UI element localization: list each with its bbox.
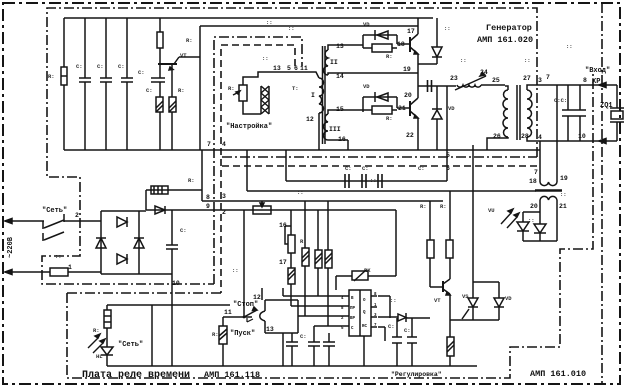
svg-text:11: 11: [224, 309, 232, 316]
svg-text:RC: RC: [362, 325, 368, 329]
svg-text:::: ::: [297, 189, 304, 196]
svg-text:R:: R:: [188, 177, 195, 184]
svg-text:"Настройка": "Настройка": [226, 122, 272, 131]
svg-text:ХР: ХР: [592, 78, 600, 86]
svg-text:3: 3: [222, 193, 226, 200]
svg-text:4: 4: [222, 141, 226, 148]
svg-text:::: ::: [232, 267, 239, 274]
svg-text:VD: VD: [363, 21, 370, 28]
svg-text:II: II: [330, 59, 338, 66]
svg-text:VD: VD: [448, 105, 455, 112]
svg-text:VU: VU: [488, 207, 495, 214]
svg-text:21: 21: [398, 105, 406, 112]
svg-text:26: 26: [493, 133, 501, 140]
svg-text:::: ::: [460, 57, 467, 64]
svg-text:C:: C:: [388, 323, 395, 330]
svg-text:C:: C:: [146, 87, 153, 94]
svg-text:2: 2: [222, 209, 226, 216]
svg-text:C:C:: C:C:: [554, 97, 567, 104]
svg-text:VT: VT: [180, 52, 187, 59]
svg-text:ВР: ВР: [350, 317, 356, 321]
svg-text:::: ::: [288, 25, 295, 32]
svg-text:VT: VT: [434, 297, 441, 304]
svg-text:R:: R:: [386, 53, 393, 60]
svg-text:Плата реле времени: Плата реле времени: [82, 370, 190, 381]
svg-text:R:: R:: [420, 203, 427, 210]
svg-text:VS: VS: [462, 293, 469, 300]
svg-text:19: 19: [403, 66, 411, 73]
svg-text:ПР: ПР: [350, 307, 356, 311]
svg-text:::: ::: [528, 217, 535, 224]
svg-text:23: 23: [450, 75, 458, 82]
svg-text:АМП 161.020: АМП 161.020: [477, 35, 533, 45]
svg-text:C:: C:: [76, 63, 83, 70]
svg-text:Генератор: Генератор: [486, 23, 532, 33]
svg-text:8: 8: [583, 77, 587, 84]
svg-text:"Сеть": "Сеть": [118, 341, 143, 349]
svg-text:2: 2: [75, 212, 79, 219]
svg-text:18: 18: [529, 178, 537, 185]
svg-text:28: 28: [521, 133, 529, 140]
svg-text:20: 20: [530, 203, 538, 210]
svg-text:T:: T:: [292, 85, 299, 92]
svg-text:::: ::: [262, 55, 269, 62]
svg-text:14: 14: [336, 73, 344, 80]
svg-text:R:: R:: [178, 87, 185, 94]
svg-text:"Сеть": "Сеть": [42, 207, 67, 215]
svg-text:C:: C:: [345, 165, 352, 172]
svg-text:16: 16: [338, 136, 346, 143]
svg-text:R:: R:: [440, 203, 447, 210]
svg-text:C:: C:: [418, 165, 425, 172]
svg-text:HL: HL: [96, 353, 103, 360]
svg-text:6: 6: [294, 65, 298, 72]
svg-text:11: 11: [300, 65, 308, 72]
svg-text:7: 7: [207, 141, 211, 148]
svg-text:R:: R:: [300, 238, 307, 245]
svg-text:25: 25: [492, 77, 500, 84]
svg-text:"Регулировка": "Регулировка": [391, 371, 442, 378]
svg-text:1: 1: [68, 264, 72, 271]
svg-text:C:: C:: [404, 327, 411, 334]
svg-text:8: 8: [206, 194, 210, 201]
svg-text:"Вход": "Вход": [585, 67, 610, 75]
svg-text:::: ::: [444, 25, 451, 32]
svg-text:12: 12: [306, 116, 314, 123]
svg-text:::: ::: [566, 43, 573, 50]
svg-text:3: 3: [538, 77, 542, 84]
svg-text:17: 17: [407, 28, 415, 35]
svg-text:C:: C:: [118, 63, 125, 70]
svg-text:5: 5: [446, 152, 450, 159]
svg-text:::: ::: [524, 57, 531, 64]
svg-text:C:: C:: [362, 165, 369, 172]
svg-text:R:: R:: [48, 73, 55, 80]
svg-text:::: ::: [266, 19, 273, 26]
svg-text:12: 12: [253, 294, 261, 301]
svg-text:13: 13: [273, 65, 281, 72]
svg-text:R:: R:: [386, 115, 393, 122]
svg-text:VD: VD: [363, 83, 370, 90]
svg-text:RK: RK: [364, 267, 371, 274]
svg-text:VD: VD: [505, 295, 512, 302]
svg-text:27: 27: [523, 75, 531, 82]
svg-text:24: 24: [480, 69, 488, 76]
svg-text:C:: C:: [97, 63, 104, 70]
svg-text:17: 17: [279, 259, 287, 266]
svg-text:АМП 161.010: АМП 161.010: [530, 369, 586, 379]
svg-text:R:: R:: [228, 85, 235, 92]
svg-text:::: ::: [55, 253, 62, 260]
svg-text:7: 7: [534, 169, 538, 176]
svg-text:22: 22: [406, 132, 414, 139]
svg-text:::: ::: [370, 177, 377, 184]
svg-text:4: 4: [538, 134, 542, 141]
svg-text:R:: R:: [186, 37, 193, 44]
svg-text:::: ::: [390, 297, 397, 304]
svg-text:"Стоп": "Стоп": [233, 301, 258, 309]
svg-text:ZQ1: ZQ1: [600, 102, 613, 110]
svg-text:13: 13: [266, 326, 274, 333]
svg-text:::: ::: [560, 191, 567, 198]
svg-text:I: I: [311, 92, 315, 99]
svg-text:"Пуск": "Пуск": [230, 330, 255, 338]
svg-text:C:: C:: [138, 69, 145, 76]
svg-text:13: 13: [336, 43, 344, 50]
svg-text:АМП 161.118: АМП 161.118: [204, 370, 260, 380]
svg-text:10: 10: [172, 280, 180, 287]
svg-text:C:: C:: [180, 227, 187, 234]
svg-text:~220В: ~220В: [7, 236, 15, 258]
svg-text:7: 7: [546, 74, 550, 81]
svg-text:R:: R:: [212, 331, 219, 338]
svg-text:III: III: [329, 126, 341, 133]
svg-text:6: 6: [446, 165, 450, 172]
svg-text:R:: R:: [93, 327, 100, 334]
svg-text:21: 21: [559, 203, 567, 210]
svg-text:C:: C:: [300, 333, 307, 340]
svg-text:16: 16: [279, 222, 287, 229]
svg-text:19: 19: [560, 175, 568, 182]
svg-text:15: 15: [336, 106, 344, 113]
svg-text:18: 18: [397, 41, 405, 48]
svg-text:20: 20: [404, 92, 412, 99]
svg-text:5: 5: [287, 65, 291, 72]
svg-text:9: 9: [206, 203, 210, 210]
svg-text:10: 10: [578, 133, 586, 140]
